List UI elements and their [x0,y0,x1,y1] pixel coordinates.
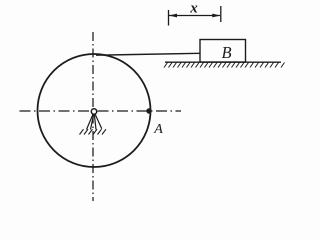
ground hatching [164,63,285,68]
rope wire from wheel top to block B [96,53,200,55]
pin circle O [91,109,96,114]
block B [200,40,246,63]
point A dot [146,108,151,113]
horizontal centerline [20,110,182,112]
pin ground hatching [80,129,107,134]
right arrowhead [212,14,220,18]
dimension right tick [220,6,222,22]
wheel circle [38,54,151,167]
pin support legs [87,114,102,130]
svg-text:B: B [221,43,231,62]
dimension left tick [168,10,170,26]
svg-text:A: A [153,122,163,137]
ground line under block [165,61,281,63]
svg-text:x: x [189,1,198,17]
dimension line x [169,15,220,17]
left arrowhead [169,14,177,18]
vertical centerline [92,32,94,201]
